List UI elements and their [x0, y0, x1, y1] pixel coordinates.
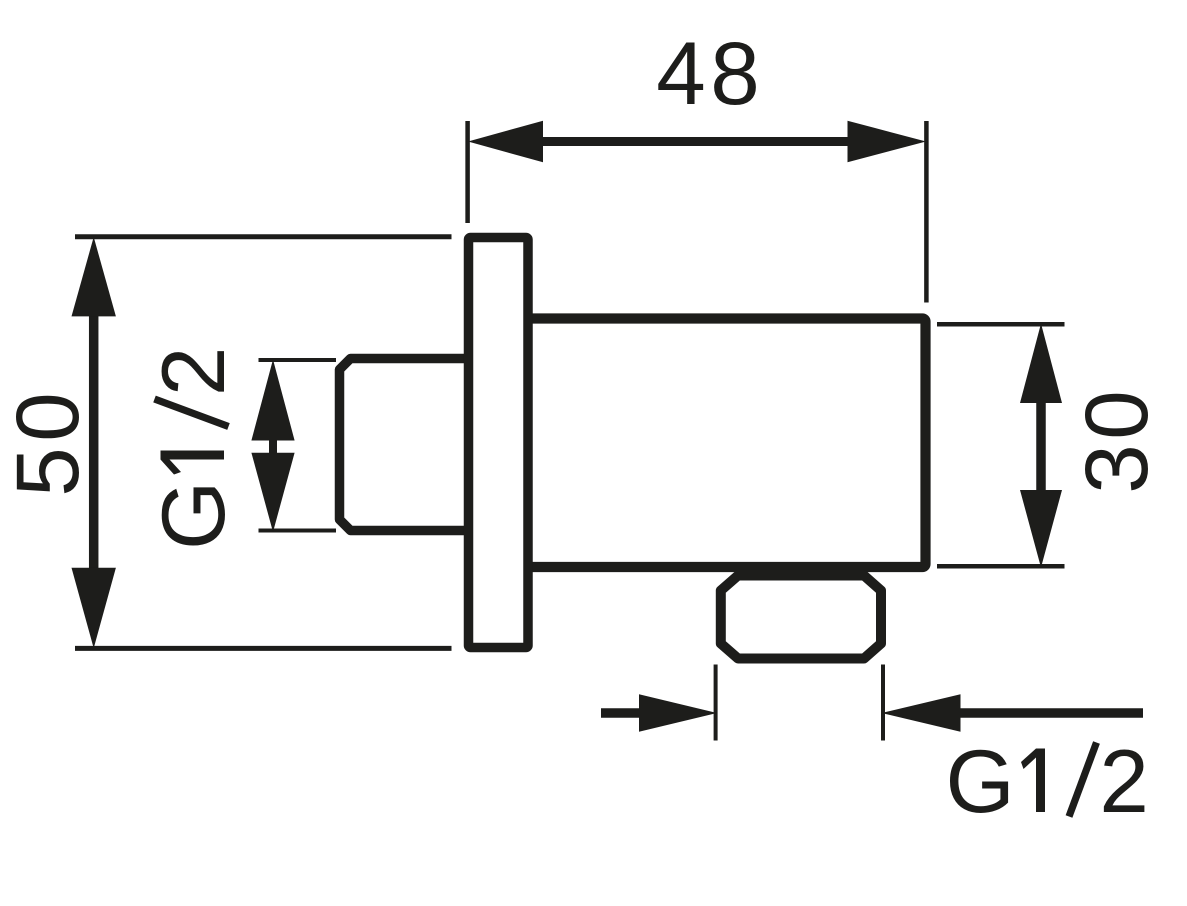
svg-text:50: 50: [0, 387, 97, 497]
dim 50 bottom extension line: [75, 646, 452, 651]
dim 48 left extension line: [465, 121, 470, 223]
dim 48 right arrowhead: [848, 121, 927, 163]
dim 48 line: [543, 137, 848, 146]
dim 48 right extension line: [924, 121, 929, 303]
G1/2 thread extension line bottom (left nipple): [259, 529, 337, 533]
main valve body: [505, 319, 926, 568]
nut G1/2 right extension line: [881, 665, 885, 741]
dim 30 top extension line: [937, 322, 1065, 327]
dim 50 bottom arrowhead: [72, 568, 116, 648]
dim 30 line: [1036, 403, 1046, 490]
thread G1/2 top arrowhead (outward up): [251, 360, 294, 441]
dim 30 top arrowhead: [1020, 324, 1062, 404]
dim 50 line: [89, 316, 99, 568]
dim 50 top arrowhead: [72, 237, 116, 316]
thread G1/2 label left (rotated): [143, 347, 243, 550]
wall connector nipple outline: [340, 359, 501, 531]
dim 48 left arrowhead: [468, 121, 543, 163]
nut G1/2 label: [946, 731, 1149, 831]
nut G1/2 left arrowhead (points right): [639, 694, 717, 731]
thread G1/2 bottom arrowhead (outward down): [251, 453, 294, 532]
nut G1/2 right arrow shaft: [960, 708, 1143, 718]
thread G1/2 center stub: [269, 438, 277, 455]
dim 50 top extension line: [75, 234, 452, 239]
nut G1/2 left extension line: [714, 665, 718, 741]
nut G1/2 right arrowhead (points left): [882, 694, 961, 731]
svg-text:48: 48: [656, 23, 764, 123]
dim 30 bottom arrowhead: [1020, 490, 1062, 568]
svg-text:2: 2: [1099, 731, 1149, 831]
svg-text:2: 2: [143, 347, 243, 397]
wall flange plate: [469, 238, 529, 648]
bottom outlet nut (octagon): [721, 576, 881, 659]
dim 30 bottom extension line: [937, 564, 1065, 569]
G1/2 thread extension line top (left nipple): [259, 358, 337, 362]
nut G1/2 left arrow shaft: [601, 708, 640, 718]
svg-text:30: 30: [1066, 386, 1166, 494]
